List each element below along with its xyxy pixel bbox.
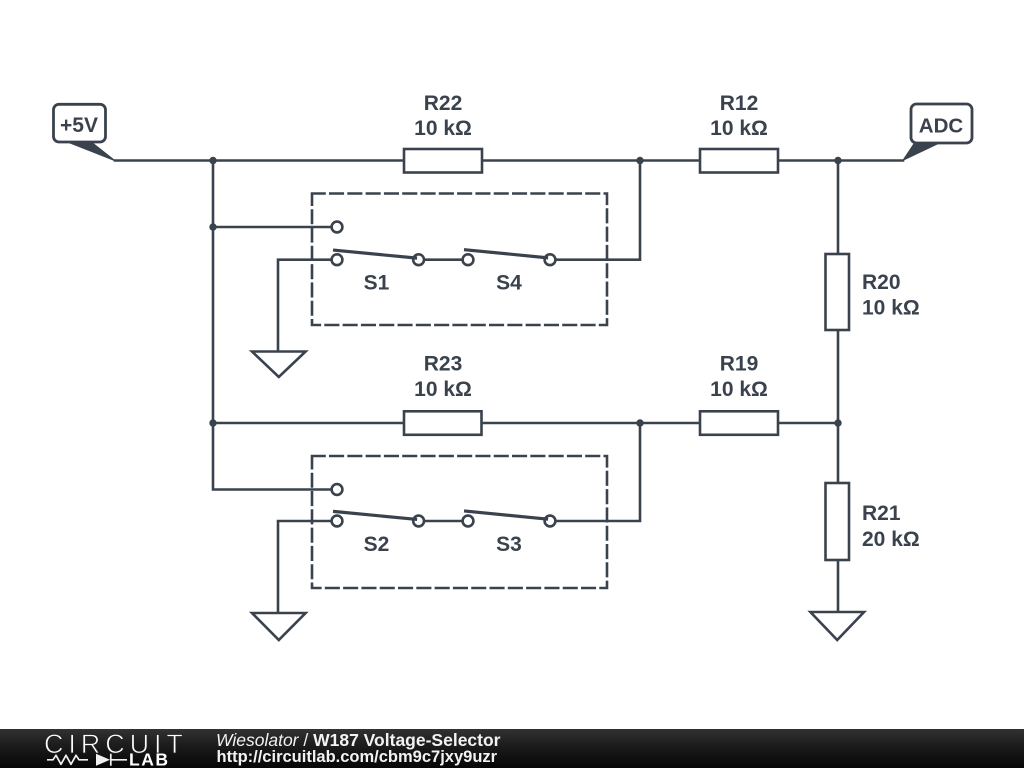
svg-text:10 kΩ: 10 kΩ [710,378,768,401]
wire S4 output up to top rail [550,161,640,260]
wire S2 common to ground stem [278,521,331,613]
svg-text:R23: R23 [424,353,463,376]
wire middle rail R23/R19 row [213,422,838,425]
dashed enclosure S1/S4 [312,194,607,326]
svg-text:10 kΩ: 10 kΩ [862,297,920,320]
svg-text:LAB: LAB [129,750,169,768]
ground for S1 [252,352,306,378]
resistor R19 [700,353,778,435]
wire left vertical bus [213,161,331,490]
footer url [217,748,498,767]
svg-text:+5V: +5V [60,114,98,137]
svg-text:10 kΩ: 10 kΩ [710,117,768,140]
svg-text:20 kΩ: 20 kΩ [862,528,920,551]
svg-text:R22: R22 [424,92,463,115]
node top-left [209,157,216,164]
node ADC divider top [834,157,841,164]
net flag +5V [54,104,115,160]
wire top rail +5V to ADC [115,159,903,162]
wire S1 common to ground stem [278,260,331,352]
resistor R12 [700,92,778,173]
svg-text:10 kΩ: 10 kΩ [414,378,472,401]
wire S2 to S3 link [419,520,468,523]
wire S3 output up to middle rail [550,423,640,521]
wire to S1 top throw [213,226,331,229]
switch S1 [332,222,424,295]
resistor R23 [404,353,482,435]
switch S2 [332,484,424,556]
svg-text:S2: S2 [364,533,390,556]
switch S3 [463,511,556,556]
svg-text:S4: S4 [496,272,522,295]
svg-text:10 kΩ: 10 kΩ [414,117,472,140]
node divider middle [834,419,841,426]
dashed enclosure S2/S3 [312,456,607,588]
node middle-left [209,419,216,426]
junction node dots [209,157,841,427]
wire right vertical ADC node down through R20 R21 [837,161,840,613]
node S1 throw tap [209,223,216,230]
svg-text:R12: R12 [720,92,759,115]
svg-text:R20: R20 [862,271,901,294]
footer title [216,732,500,749]
svg-text:S3: S3 [496,533,522,556]
wire S1 to S4 link [419,258,468,261]
node S3 output on middle rail [636,419,643,426]
svg-text:R21: R21 [862,502,901,525]
resistor R22 [404,92,482,173]
resistor R21 [826,483,920,560]
CircuitLab logo [0,729,210,768]
svg-text:S1: S1 [364,272,390,295]
ground for S2 [252,613,306,640]
net flag ADC [903,104,972,160]
svg-text:R19: R19 [720,353,759,376]
ground for R21 [810,612,864,640]
node S4 output on top rail [636,157,643,164]
footer bar [0,729,1024,768]
resistor R20 [826,254,920,330]
switch S4 [463,250,556,295]
svg-text:ADC: ADC [919,115,964,138]
